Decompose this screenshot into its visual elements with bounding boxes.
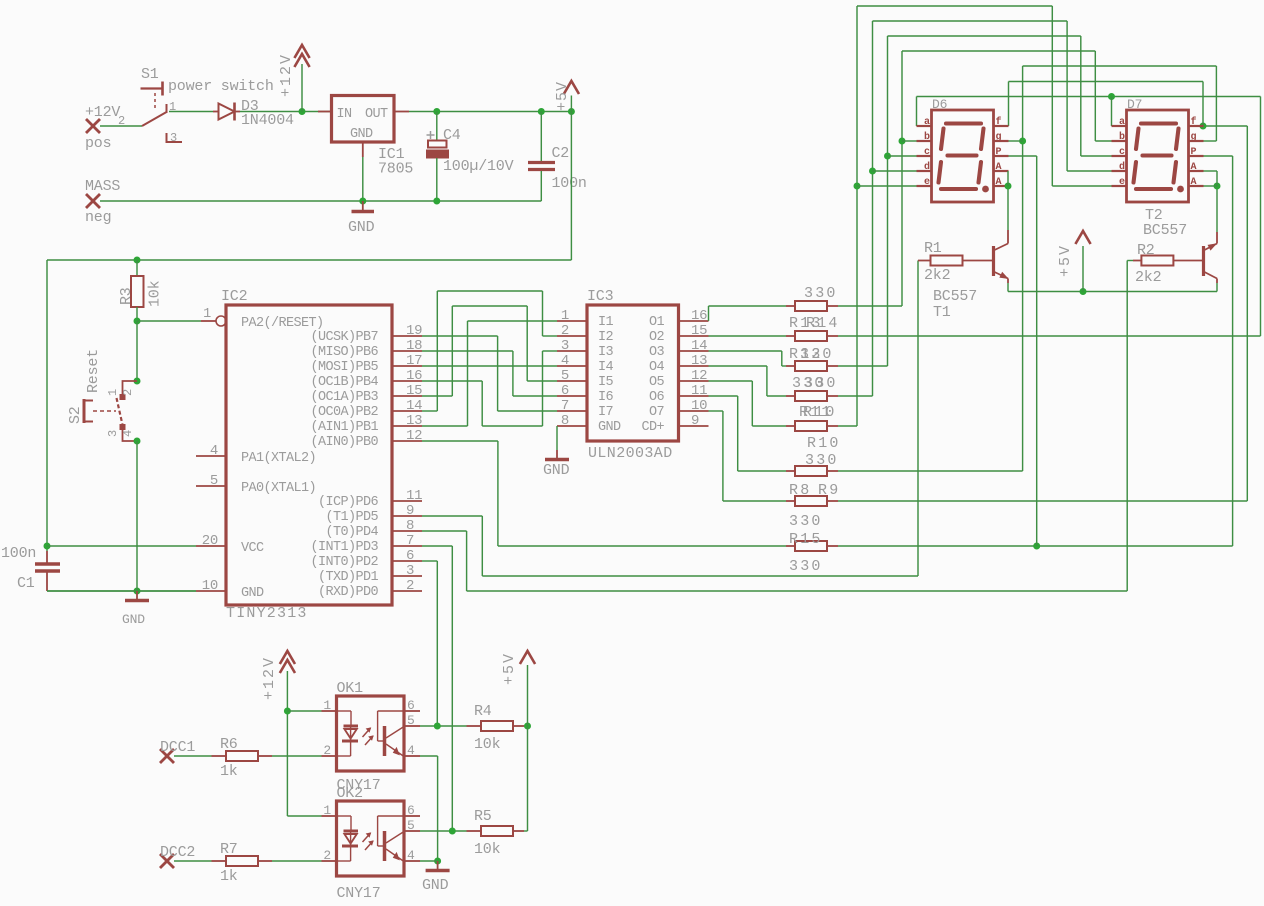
wire MASS ground rail [100, 198, 541, 205]
svg-text:ULN2003AD: ULN2003AD [588, 445, 673, 462]
wire R6 to OK1 pin2 [272, 755, 322, 757]
wire C1 bottom to GND rail [47, 588, 196, 595]
wire S1 to D3 [169, 111, 213, 113]
wire S2 to GND junction [136, 441, 138, 591]
junction seg a at D7 [1108, 93, 1115, 100]
svg-text:I1: I1 [598, 315, 614, 330]
junction C1 top [44, 543, 51, 550]
node DCC2 input [160, 844, 195, 868]
svg-text:neg: neg [85, 209, 111, 226]
wire net seg c [838, 36, 1112, 366]
wire VCC left vertical [44, 260, 51, 551]
svg-text:5: 5 [210, 473, 218, 489]
wire O6 to R10 [709, 396, 787, 471]
capacitor C1 100n [1, 545, 60, 592]
svg-text:GND: GND [348, 219, 375, 236]
svg-text:(OC1A)PB3: (OC1A)PB3 [310, 390, 378, 405]
svg-text:PA2(/RESET): PA2(/RESET) [241, 316, 324, 331]
svg-text:R8: R8 [789, 482, 811, 499]
svg-text:13: 13 [691, 353, 707, 369]
svg-text:GND: GND [350, 127, 373, 142]
svg-text:GND: GND [598, 420, 621, 435]
svg-text:100n: 100n [552, 175, 587, 192]
svg-text:+12V: +12V [278, 53, 295, 97]
wire VCC to IC2 pin20 [47, 545, 196, 547]
svg-text:R4: R4 [474, 703, 492, 720]
wire +5V emitter rail [1008, 283, 1217, 295]
svg-text:OK1: OK1 [337, 680, 364, 697]
svg-text:R5: R5 [474, 808, 492, 825]
wire net PD4 to R2 base [422, 261, 1133, 592]
supply +12V arrow top [278, 45, 310, 112]
display D6 7-segment [917, 97, 1009, 202]
svg-text:10k: 10k [474, 841, 501, 858]
svg-text:IC2: IC2 [221, 288, 247, 305]
svg-text:A: A [996, 162, 1002, 173]
junction OK2 pin5 / PD3 [449, 828, 456, 835]
svg-text:15: 15 [406, 383, 422, 399]
svg-text:BC557: BC557 [933, 288, 977, 305]
resistor R12 330 (segment c) [786, 346, 838, 371]
svg-text:C4: C4 [443, 127, 461, 144]
svg-text:2k2: 2k2 [924, 267, 950, 284]
svg-text:O4: O4 [649, 360, 665, 375]
wire O1 to R13 [709, 306, 787, 321]
wire +12V to OK2 pin1 [287, 815, 321, 817]
junction R3 top [134, 257, 141, 264]
svg-text:R3: R3 [118, 287, 135, 305]
svg-text:R2: R2 [1137, 242, 1155, 259]
svg-text:R15: R15 [789, 531, 823, 548]
svg-text:A: A [1191, 177, 1197, 188]
svg-text:19: 19 [406, 323, 422, 339]
svg-text:a: a [924, 117, 930, 128]
svg-text:IC3: IC3 [587, 288, 614, 305]
svg-text:(AIN0)PB0: (AIN0)PB0 [310, 435, 378, 450]
wire net PD2 to OK1 [422, 561, 437, 726]
node +12V pos terminal [85, 104, 120, 152]
svg-text:O6: O6 [649, 390, 665, 405]
svg-text:7: 7 [406, 533, 414, 549]
wire net PB7 to I7 [422, 336, 557, 411]
svg-text:TINY2313: TINY2313 [226, 605, 308, 622]
svg-text:(ICP)PD6: (ICP)PD6 [318, 495, 379, 510]
svg-text:e: e [924, 177, 930, 188]
mcu IC2 TINY2313 [196, 288, 422, 622]
svg-text:power switch: power switch [168, 78, 274, 95]
svg-text:3: 3 [561, 338, 569, 354]
wire net seg dp [838, 156, 1233, 550]
wire net PD5 to R1 base [422, 261, 918, 577]
wire O5 to R11 [709, 381, 787, 426]
svg-text:b: b [924, 131, 930, 143]
svg-text:7805: 7805 [378, 161, 413, 178]
svg-text:P: P [996, 147, 1002, 158]
svg-text:R10: R10 [803, 404, 837, 421]
svg-text:C2: C2 [552, 145, 570, 162]
svg-text:(MOSI)PB5: (MOSI)PB5 [310, 360, 378, 375]
junction D7 anode [1214, 183, 1221, 190]
svg-text:g: g [1191, 132, 1197, 143]
junction S2 pin2 [134, 378, 141, 385]
ground GND opto [422, 861, 450, 894]
capacitor C4 100u/10V [427, 112, 514, 202]
svg-text:MASS: MASS [85, 178, 120, 195]
svg-text:O1: O1 [649, 315, 665, 330]
resistor R10 330 (segment g) [786, 435, 841, 476]
svg-text:O2: O2 [649, 330, 665, 345]
svg-text:OUT: OUT [365, 107, 388, 122]
svg-text:14: 14 [691, 338, 707, 354]
junction S2 pin4 [134, 438, 141, 445]
svg-text:(UCSK)PB7: (UCSK)PB7 [310, 330, 378, 345]
svg-text:1k: 1k [220, 868, 238, 885]
svg-text:I7: I7 [598, 405, 614, 420]
svg-text:330: 330 [789, 558, 823, 575]
svg-text:GND: GND [543, 462, 570, 479]
wire net PB2 to I2 [422, 291, 557, 411]
wire pos to S1 [100, 125, 142, 127]
wire IC1 GND down [362, 157, 364, 201]
svg-text:(INT1)PD3: (INT1)PD3 [310, 540, 378, 555]
resistor R5 10k [467, 808, 525, 858]
svg-text:O5: O5 [649, 375, 665, 390]
junction seg d at D6 [869, 168, 876, 175]
svg-text:d: d [1119, 161, 1125, 173]
svg-text:R10: R10 [807, 435, 841, 452]
svg-text:17: 17 [406, 353, 422, 369]
svg-text:R9: R9 [818, 482, 840, 499]
svg-text:CNY17: CNY17 [337, 885, 381, 902]
svg-text:(T0)PD4: (T0)PD4 [325, 525, 378, 540]
svg-text:IN: IN [337, 107, 353, 122]
svg-text:4: 4 [407, 743, 415, 758]
svg-text:+5V: +5V [501, 652, 518, 685]
wire net seg d [838, 21, 1112, 396]
wire +5V vertical to VCC rail [570, 112, 572, 261]
resistor R1 2k2 [918, 240, 994, 284]
wire net PB3 to I5 [422, 306, 557, 396]
svg-text:1: 1 [323, 698, 331, 713]
svg-text:A: A [1191, 162, 1197, 173]
svg-text:2: 2 [561, 323, 569, 339]
svg-text:4: 4 [407, 848, 415, 863]
diode D3 1N4004 [213, 98, 294, 129]
svg-text:+12V: +12V [261, 656, 278, 700]
svg-text:BC557: BC557 [1143, 222, 1187, 239]
svg-text:f: f [996, 116, 1002, 128]
svg-text:PA1(XTAL2): PA1(XTAL2) [241, 451, 316, 466]
svg-text:R1: R1 [924, 240, 942, 257]
svg-text:2: 2 [118, 114, 125, 128]
svg-text:5: 5 [407, 818, 415, 833]
resistor R11 330 (segment e) [786, 404, 838, 431]
wire net PB0 to R15 (segment dp) [422, 441, 786, 546]
wire O3 to R12 [709, 351, 787, 366]
svg-text:+5V: +5V [554, 81, 571, 111]
svg-text:D7: D7 [1127, 97, 1142, 112]
svg-text:e: e [1119, 177, 1125, 188]
svg-text:8: 8 [406, 518, 414, 534]
svg-text:GND: GND [422, 877, 449, 894]
junction seg b at D6 [899, 138, 906, 145]
svg-text:R14: R14 [806, 315, 840, 332]
svg-text:PA0(XTAL1): PA0(XTAL1) [241, 481, 316, 496]
wire net seg b [838, 51, 1112, 306]
junction OK1 pin5 / PD2 [434, 723, 441, 730]
wire D3 to IC1 IN with +12V tap [240, 108, 332, 115]
wire reset net down to S2 [136, 321, 138, 381]
wire net PB6 to I6 [422, 351, 557, 396]
svg-text:O3: O3 [649, 345, 665, 360]
svg-text:(RXD)PD0: (RXD)PD0 [318, 585, 379, 600]
supply +5V arrow (power) [554, 81, 579, 112]
svg-text:f: f [1191, 116, 1197, 128]
resistor R15 330 (segment dp) [786, 531, 838, 575]
wire net seg a [838, 93, 1261, 336]
svg-text:GND: GND [122, 612, 145, 627]
svg-text:5: 5 [407, 713, 415, 728]
svg-text:a: a [1119, 117, 1125, 128]
svg-text:DCC2: DCC2 [160, 844, 195, 861]
svg-text:5: 5 [561, 368, 569, 384]
wire O4 to R(d) [709, 366, 787, 396]
svg-text:12: 12 [406, 428, 422, 444]
ground GND under IC1 [348, 201, 375, 236]
svg-text:DCC1: DCC1 [160, 739, 195, 756]
junction seg e at D6 [854, 183, 861, 190]
junction opto GND [434, 858, 441, 865]
wire IC3 GND to ground [556, 426, 558, 450]
svg-text:(T1)PD5: (T1)PD5 [325, 510, 378, 525]
resistor R2 2k2 [1133, 242, 1204, 286]
svg-text:(TXD)PD1: (TXD)PD1 [318, 570, 379, 585]
svg-text:14: 14 [406, 398, 422, 414]
svg-text:13: 13 [406, 413, 422, 429]
svg-text:O7: O7 [649, 405, 665, 420]
svg-text:4: 4 [210, 443, 218, 459]
svg-text:1: 1 [561, 308, 569, 324]
svg-text:GND: GND [241, 586, 264, 601]
svg-text:CD+: CD+ [641, 420, 664, 435]
svg-text:pos: pos [85, 135, 111, 152]
optocoupler OK2 CNY17 [322, 785, 421, 902]
svg-text:2k2: 2k2 [1135, 269, 1161, 286]
display D7 7-segment [1112, 97, 1204, 202]
wire net seg f [838, 82, 1247, 502]
node DCC1 input [160, 739, 195, 763]
svg-text:I3: I3 [598, 345, 614, 360]
svg-text:4: 4 [121, 430, 135, 437]
wire net seg g [838, 66, 1216, 471]
svg-text:2: 2 [323, 743, 331, 758]
svg-text:1: 1 [203, 307, 211, 322]
wire T1 collector to D6 anode [1005, 171, 1012, 230]
junction +5V mid [1080, 288, 1087, 295]
svg-text:(MISO)PB6: (MISO)PB6 [310, 345, 378, 360]
wire net seg e [838, 6, 1112, 426]
wire GND to IC2 pin10 [47, 590, 196, 592]
wire IC1 OUT +5V rail [409, 108, 575, 115]
svg-text:100n: 100n [1, 545, 36, 562]
wire VCC rail horizontal [47, 257, 571, 264]
svg-text:b: b [1119, 131, 1125, 143]
junction GND at S2 column [134, 588, 141, 595]
wire net PB5 to I4 [422, 365, 557, 367]
transistor T1 BC557 [933, 230, 1008, 321]
driver IC3 ULN2003AD [557, 288, 709, 462]
svg-text:2: 2 [121, 389, 135, 396]
resistor R8 R9 330 (segment f) [786, 482, 840, 530]
svg-text:16: 16 [406, 368, 422, 384]
svg-text:1N4004: 1N4004 [241, 112, 294, 129]
junction C4 bottom [433, 198, 440, 205]
svg-text:8: 8 [561, 413, 569, 429]
svg-text:6: 6 [561, 383, 569, 399]
svg-text:2: 2 [323, 848, 331, 863]
junction seg f at D7 [1200, 123, 1207, 130]
svg-text:A: A [996, 177, 1002, 188]
svg-text:18: 18 [406, 338, 422, 354]
wire +12V to OK1 pin1 [287, 710, 321, 712]
svg-text:R7: R7 [220, 841, 238, 858]
svg-text:3: 3 [170, 131, 177, 145]
svg-text:3: 3 [406, 563, 414, 579]
supply +12V arrow opto [261, 651, 295, 816]
svg-text:(OC1B)PB4: (OC1B)PB4 [310, 375, 378, 390]
wire OK1 pin5 node [420, 723, 467, 730]
ground GND under IC3 [543, 450, 570, 479]
svg-text:1k: 1k [220, 763, 238, 780]
svg-text:I2: I2 [598, 330, 614, 345]
transistor T2 BC557 [1143, 207, 1217, 283]
svg-text:c: c [1119, 147, 1125, 158]
svg-text:7: 7 [561, 398, 569, 414]
svg-text:S1: S1 [141, 66, 159, 83]
wire OK2 pin5 node [420, 828, 467, 835]
svg-text:I6: I6 [598, 390, 614, 405]
wire R3 to IC2 pin1 /RESET [134, 307, 227, 326]
svg-text:10: 10 [202, 578, 218, 594]
junction seg dp at D6 branch [1033, 543, 1040, 550]
resistor R4 10k [467, 703, 525, 753]
junction OK1 pin1 [284, 708, 291, 715]
svg-text:11: 11 [406, 488, 422, 504]
svg-text:S2: S2 [67, 406, 84, 424]
wire O7 to R8/R9 [709, 411, 787, 501]
svg-text:g: g [996, 132, 1002, 143]
svg-text:C1: C1 [17, 575, 35, 592]
resistor R6 1k [212, 736, 273, 780]
resistor R7 1k [212, 841, 273, 885]
resistor R3 10k [118, 260, 164, 321]
wire R4 to +5V [524, 723, 531, 730]
svg-text:330: 330 [789, 513, 823, 530]
svg-text:d: d [924, 161, 930, 173]
svg-text:3: 3 [106, 430, 120, 437]
svg-text:330: 330 [804, 285, 838, 302]
switch S1 power switch [118, 66, 274, 145]
junction D6 anode [1005, 183, 1012, 190]
svg-text:20: 20 [202, 533, 218, 549]
svg-text:c: c [924, 147, 930, 158]
supply +5V arrow opto [501, 651, 535, 831]
wire T2 collector to D7 anode [1204, 171, 1221, 232]
junction R4/+5V [524, 723, 531, 730]
junction seg g at D6 [1019, 138, 1026, 145]
svg-text:330: 330 [800, 346, 834, 363]
svg-text:100µ/10V: 100µ/10V [443, 158, 514, 175]
svg-text:6: 6 [406, 548, 414, 564]
junction seg c at D6 [884, 153, 891, 160]
svg-text:6: 6 [407, 698, 415, 713]
junction +5V arrow [568, 108, 575, 115]
svg-text:10k: 10k [474, 736, 501, 753]
wire O2 to R14 [709, 335, 787, 337]
resistor R13 330 (segment b) [786, 285, 838, 311]
svg-text:330: 330 [805, 452, 839, 469]
svg-text:1: 1 [323, 803, 331, 818]
optocoupler OK1 CNY17 [322, 680, 421, 794]
svg-text:Reset: Reset [85, 349, 102, 393]
wire DCC2 to R7 [174, 860, 212, 862]
svg-text:P: P [1191, 147, 1197, 158]
wire DCC1 to R6 [174, 755, 212, 757]
svg-text:15: 15 [691, 323, 707, 339]
svg-text:R6: R6 [220, 736, 238, 753]
svg-text:11: 11 [691, 383, 707, 399]
svg-text:330: 330 [804, 375, 838, 392]
svg-text:10k: 10k [147, 280, 164, 307]
resistor 330 (segment d) [786, 375, 838, 401]
svg-text:(OC0A)PB2: (OC0A)PB2 [310, 405, 378, 420]
wire R7 to OK2 pin2 [272, 860, 322, 862]
wire net PB4 to I3 [422, 351, 557, 426]
wire OK2 pin4 to GND [420, 860, 438, 862]
svg-text:9: 9 [406, 503, 414, 519]
svg-text:+5V: +5V [1057, 244, 1074, 277]
svg-text:VCC: VCC [241, 541, 264, 556]
wire R5 to +5V [524, 830, 528, 832]
wire OK1 pin4 to GND [420, 756, 441, 865]
junction C2 top [538, 108, 545, 115]
svg-text:+12V: +12V [85, 104, 120, 121]
svg-text:2: 2 [406, 578, 414, 594]
wire net PB1 to I1 [422, 321, 557, 426]
ground GND under S2 [122, 591, 149, 627]
supply +5V arrow mid [1057, 231, 1091, 292]
svg-text:(INT0)PD2: (INT0)PD2 [310, 555, 378, 570]
svg-text:9: 9 [691, 413, 699, 429]
junction IC1 GND [359, 198, 366, 205]
svg-text:12: 12 [691, 368, 707, 384]
svg-text:OK2: OK2 [337, 785, 363, 802]
wire net PD3 to OK2 [422, 546, 452, 831]
node MASS neg terminal [85, 178, 120, 226]
switch S2 Reset [67, 349, 141, 445]
junction +12V rail [299, 108, 306, 115]
svg-text:I4: I4 [598, 360, 614, 375]
svg-text:D6: D6 [932, 97, 947, 112]
resistor R14 330 (segment a) [786, 315, 840, 341]
svg-text:4: 4 [561, 353, 569, 369]
svg-text:16: 16 [691, 308, 707, 324]
junction C4 top [433, 108, 440, 115]
svg-text:I5: I5 [598, 375, 614, 390]
capacitor C2 100n [528, 112, 587, 202]
regulator IC1 7805 [318, 96, 413, 178]
svg-text:6: 6 [407, 803, 415, 818]
